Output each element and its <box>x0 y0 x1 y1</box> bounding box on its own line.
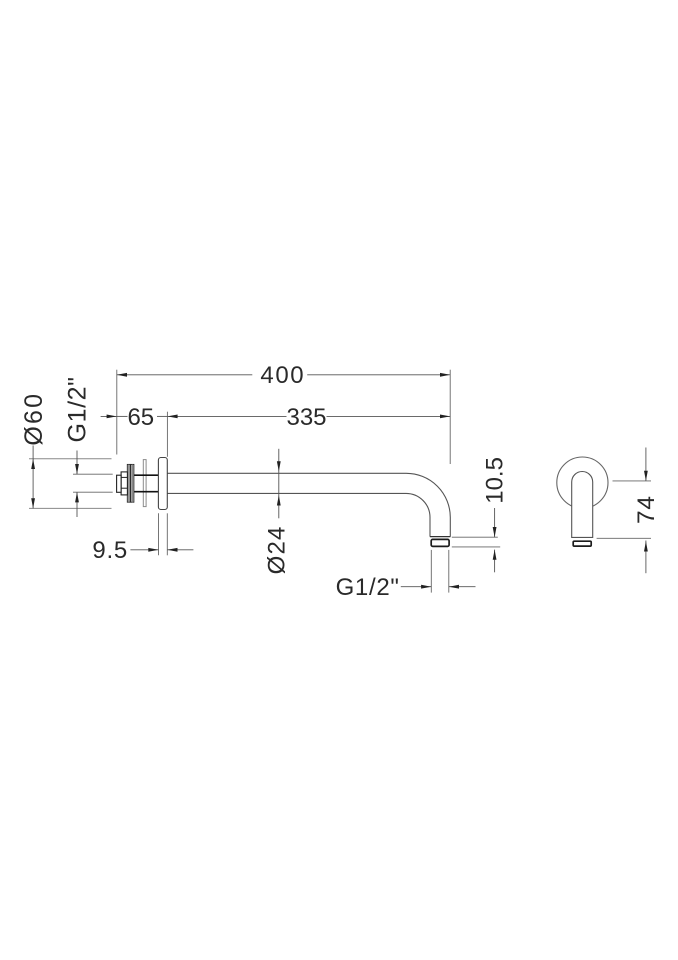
threaded rod lower edge <box>127 491 158 493</box>
washer plate <box>143 460 146 507</box>
dimension 10.5 line upper <box>494 508 496 537</box>
svg-text:400: 400 <box>260 362 305 389</box>
thread end cap <box>117 475 122 492</box>
dimension G1/2 bottom extension line right <box>448 550 450 593</box>
svg-text:G1/2": G1/2" <box>63 376 91 442</box>
dimension dia60 arrow up <box>31 459 35 469</box>
dimension 9.5 line left <box>130 549 158 551</box>
hex nut facet line lower <box>121 487 127 489</box>
dimension 335 line <box>167 415 286 417</box>
shower arm horizontal pipe outer contour <box>167 473 450 536</box>
svg-text:Ø60: Ø60 <box>20 392 48 446</box>
dimension 9.5 extension line right <box>166 513 168 555</box>
dimension 74 extension line top <box>613 480 652 482</box>
dimension dia24 line <box>278 449 280 519</box>
dimension 10.5 line lower <box>494 550 496 573</box>
dimension 9.5 arrow left-pointing <box>167 548 177 552</box>
front view pipe <box>572 472 593 538</box>
hex nut facet line upper <box>121 476 127 478</box>
dimension 400 extension line right <box>449 370 451 464</box>
dimension 10.5 arrow up <box>493 550 497 560</box>
svg-text:65: 65 <box>127 404 154 431</box>
dimension G1/2 bottom line right <box>449 586 476 588</box>
threaded rod upper edge <box>127 474 158 476</box>
dimension 10.5 extension line bottom <box>452 546 500 548</box>
dimension 9.5 arrow right-pointing <box>148 548 158 552</box>
dimension 65 arrow <box>107 415 117 419</box>
dimension G1/2 left line lower <box>76 492 78 517</box>
svg-text:9.5: 9.5 <box>92 537 128 564</box>
dimension G1/2 bottom arrow left-pointing <box>449 585 459 589</box>
svg-text:335: 335 <box>286 404 326 431</box>
serrated flange plate 2 <box>131 464 134 502</box>
dimension 335 arrow right <box>440 415 450 419</box>
dimension G1/2 left extension line top <box>73 473 113 475</box>
svg-text:G1/2": G1/2" <box>336 574 400 601</box>
dimension 335 arrow left <box>167 415 177 419</box>
dimension G1/2 bottom arrow right-pointing <box>421 585 431 589</box>
dimension 65/335 extension line mid <box>166 412 168 457</box>
dimension dia24 arrow up <box>277 495 281 505</box>
serrated flange plate 1 <box>127 464 130 502</box>
dimension 74 line upper <box>645 448 647 481</box>
shower arm inner contour <box>167 493 430 536</box>
dimension dia60 line <box>32 446 34 509</box>
dimension G1/2 bottom extension line left <box>430 550 432 593</box>
front view flange circle <box>557 457 608 508</box>
svg-text:Ø24: Ø24 <box>264 525 291 574</box>
dimension dia60 extension line top <box>29 458 112 460</box>
dimension 74 arrow down <box>644 471 648 481</box>
hex nut <box>121 472 127 495</box>
dimension 74 arrow up <box>644 541 648 551</box>
dimension 74 line lower <box>645 541 647 574</box>
front view collar <box>573 541 591 546</box>
dimension G1/2 left extension line bottom <box>73 491 113 493</box>
dimension 10.5 extension line top <box>452 536 498 538</box>
dimension 400 extension line left <box>116 370 118 455</box>
dimension 400 arrow right <box>440 373 450 377</box>
dimension G1/2 left line upper <box>76 451 78 475</box>
svg-text:10.5: 10.5 <box>482 457 509 504</box>
pipe end edge <box>430 536 451 538</box>
dimension 74 extension line bottom <box>597 537 651 539</box>
dimension G1/2 bottom line left <box>401 586 432 588</box>
dimension 400 line <box>117 374 253 376</box>
dimension 10.5 arrow down <box>493 527 497 537</box>
dimension 65 line <box>101 415 117 417</box>
dimension 400 arrow left <box>117 373 127 377</box>
dimension G1/2 left arrow up <box>75 492 79 502</box>
dimension G1/2 left arrow down <box>75 464 79 474</box>
dimension 9.5 line right <box>167 549 193 551</box>
collar (side view) <box>431 539 449 546</box>
dimension 9.5 extension line left <box>158 513 160 555</box>
dimension dia60 arrow down <box>31 498 35 508</box>
dimension dia60 extension line bottom <box>29 507 112 509</box>
dimension dia24 arrow down <box>277 461 281 471</box>
svg-text:74: 74 <box>633 495 660 524</box>
wall plate <box>158 458 167 510</box>
